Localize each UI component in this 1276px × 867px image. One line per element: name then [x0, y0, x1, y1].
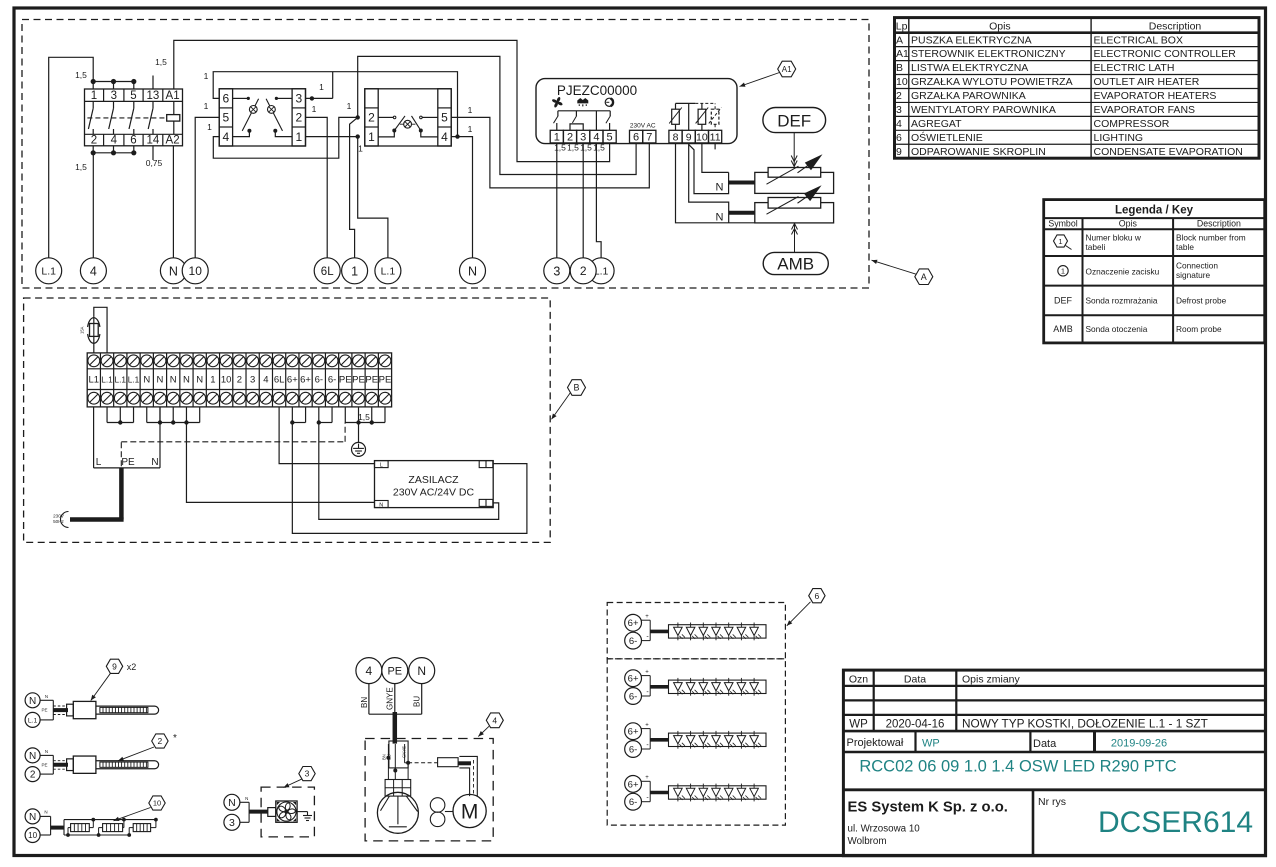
- svg-text:PE: PE: [41, 762, 47, 767]
- hexagon label 2 with leader and asterisk: [118, 733, 177, 761]
- svg-text:1,5: 1,5: [155, 57, 167, 67]
- svg-text:0,75: 0,75: [146, 158, 163, 168]
- wire 6L to power supply L: [279, 407, 374, 464]
- svg-text:EVAPORATOR HEATERS: EVAPORATOR HEATERS: [1094, 90, 1217, 102]
- svg-text:ELECTRICAL BOX: ELECTRICAL BOX: [1094, 34, 1183, 46]
- node circle L.1 mid: [375, 258, 401, 284]
- svg-text:N: N: [45, 749, 48, 754]
- svg-text:N: N: [183, 375, 190, 386]
- svg-text:AMB: AMB: [1053, 324, 1073, 334]
- hexagon label A1 with leader: [740, 61, 796, 87]
- svg-text:PE: PE: [365, 375, 378, 386]
- svg-text:6+: 6+: [628, 779, 639, 790]
- svg-text:OŚWIETLENIE: OŚWIETLENIE: [911, 131, 983, 144]
- condensate fan unit 3: [224, 794, 312, 830]
- svg-text:N: N: [196, 375, 203, 386]
- wire label 1 left of S2-2: [347, 101, 352, 111]
- node circle 6L: [314, 258, 340, 284]
- svg-text:6: 6: [815, 591, 820, 601]
- wire N to power supply N: [186, 423, 374, 503]
- junction dot S2-1: [356, 134, 360, 138]
- wire label 0,75: [146, 158, 163, 168]
- svg-text:4: 4: [90, 264, 97, 278]
- svg-text:PE: PE: [339, 375, 352, 386]
- svg-text:3: 3: [295, 92, 302, 106]
- hexagon label 6 with leader: [787, 589, 825, 626]
- svg-text:*: *: [173, 733, 177, 744]
- wire PJEZC-1 to circle 3: [556, 143, 558, 258]
- svg-text:1,5: 1,5: [75, 70, 87, 80]
- svg-text:2: 2: [368, 111, 375, 125]
- svg-text:Block number from: Block number from: [1176, 233, 1246, 243]
- svg-text:Opis: Opis: [1119, 219, 1138, 229]
- svg-text:3: 3: [111, 90, 117, 102]
- svg-text:1: 1: [204, 101, 209, 111]
- svg-text:STEROWNIK ELEKTRONICZNY: STEROWNIK ELEKTRONICZNY: [911, 48, 1066, 60]
- PJEZC terminals 6-7: [630, 130, 656, 143]
- svg-text:+: +: [645, 775, 649, 781]
- svg-text:3: 3: [580, 131, 586, 143]
- power supply ZASILACZ: [375, 461, 494, 509]
- svg-text:1,5: 1,5: [567, 143, 579, 153]
- wire label 1 left of S1-4: [207, 122, 212, 132]
- GNYE dashed link and motor cable: [408, 756, 477, 796]
- svg-text:N: N: [379, 502, 383, 508]
- svg-text:1: 1: [91, 90, 97, 102]
- svg-text:DEF: DEF: [1054, 295, 1073, 305]
- svg-text:B: B: [573, 383, 579, 393]
- svg-text:6L: 6L: [274, 375, 285, 386]
- svg-text:6L: 6L: [321, 266, 334, 278]
- svg-text:1,5: 1,5: [358, 412, 370, 422]
- svg-text:3: 3: [229, 817, 235, 829]
- svg-text:2: 2: [580, 264, 587, 278]
- svg-text:14: 14: [147, 135, 160, 147]
- svg-text:Description: Description: [1149, 20, 1202, 32]
- compressor motor symbol: [377, 792, 418, 833]
- compressor feed wires BN GNYE BU: [360, 684, 422, 744]
- svg-text:ul. Wrzosowa 10: ul. Wrzosowa 10: [848, 824, 921, 835]
- lighting dashed boundary lower: [607, 659, 785, 825]
- svg-text:3: 3: [250, 375, 255, 386]
- svg-text:4: 4: [263, 375, 268, 386]
- wire label 1,5 PE: [358, 412, 370, 422]
- svg-text:Wolbrom: Wolbrom: [848, 836, 887, 847]
- svg-text:2020-04-16: 2020-04-16: [886, 719, 945, 731]
- wire label 1 above junction: [319, 82, 324, 92]
- outlet air heater assembly 10: [25, 809, 158, 843]
- svg-text:6: 6: [633, 131, 639, 143]
- wire power supply minus to 6-: [319, 423, 499, 520]
- svg-text:2: 2: [896, 90, 902, 102]
- svg-text:13: 13: [147, 90, 160, 102]
- svg-text:Room probe: Room probe: [1176, 324, 1222, 334]
- svg-text:signature: signature: [1176, 270, 1211, 280]
- svg-text:10: 10: [153, 799, 161, 808]
- relay contact bus: [558, 110, 610, 112]
- wire labels 1,5 under terminals: [554, 143, 605, 153]
- svg-text:6-: 6-: [328, 375, 336, 386]
- fuse F1 loop L1 to L.1: [80, 307, 108, 353]
- wire S2-2 net to PJEZC terminal 6: [358, 56, 636, 174]
- fan unit dashed boundary: [261, 787, 314, 837]
- svg-text:DEF: DEF: [777, 112, 811, 131]
- svg-text:Numer bloku w: Numer bloku w: [1086, 233, 1142, 243]
- svg-text:1: 1: [210, 375, 215, 386]
- svg-text:L.1: L.1: [28, 717, 38, 724]
- svg-text:PE: PE: [387, 666, 402, 678]
- svg-text:ODPAROWANIE SKROPLIN: ODPAROWANIE SKROPLIN: [911, 146, 1046, 158]
- svg-text:PUSZKA ELEKTRYCZNA: PUSZKA ELEKTRYCZNA: [911, 34, 1032, 46]
- contactor K1: [85, 89, 183, 147]
- hexagon label 3 with leader: [284, 767, 316, 788]
- mains cable entry box L PE N: [94, 407, 160, 468]
- light relay contact: [606, 111, 611, 131]
- svg-text:Sonda otoczenia: Sonda otoczenia: [1086, 324, 1148, 334]
- svg-text:COMPRESSOR: COMPRESSOR: [1094, 118, 1170, 130]
- svg-text:230V AC/24V DC: 230V AC/24V DC: [393, 487, 475, 499]
- svg-text:Lp: Lp: [896, 20, 908, 32]
- evaporator heater assembly 2: [25, 748, 159, 782]
- wire label 1,5 bottom left: [75, 162, 87, 172]
- wire PJEZC-3 to circle 2: [582, 143, 584, 258]
- svg-text:6-: 6-: [629, 797, 637, 808]
- svg-text:N: N: [716, 212, 724, 224]
- wire S1-4 under loop to S2-2: [213, 117, 357, 158]
- node circle 3: [544, 258, 570, 284]
- defrost icon: [578, 99, 588, 107]
- svg-text:WENTYLATORY PAROWNIKA: WENTYLATORY PAROWNIKA: [911, 104, 1056, 116]
- svg-text:6: 6: [130, 135, 136, 147]
- svg-text:A2: A2: [166, 135, 180, 147]
- node circle 4: [80, 258, 106, 284]
- svg-text:10: 10: [696, 131, 708, 143]
- junction dot S2-4: [455, 134, 459, 138]
- wire label 1 right of S2-5: [468, 105, 473, 115]
- air heater assembly 9 (x2): [25, 693, 159, 728]
- fan relay contact: [554, 111, 559, 131]
- DEF pointer arrow: [791, 133, 797, 167]
- LED strip row 3: [625, 722, 766, 757]
- block label hexagon B with leader: [552, 380, 586, 420]
- PE jumper bus under strip: [345, 407, 385, 425]
- 6+ jumper bus: [290, 407, 305, 425]
- svg-text:LISTWA ELEKTRYCZNA: LISTWA ELEKTRYCZNA: [911, 62, 1028, 74]
- svg-text:4: 4: [366, 664, 373, 678]
- svg-text:10: 10: [28, 831, 37, 840]
- svg-text:Opis zmiany: Opis zmiany: [962, 674, 1021, 686]
- svg-text:A1: A1: [166, 90, 180, 102]
- node circle L.1 left: [36, 258, 62, 284]
- condenser fan symbol: [430, 798, 445, 827]
- svg-text:L.1: L.1: [101, 375, 113, 385]
- wire label 1,5 top left: [75, 70, 87, 80]
- svg-text:Data: Data: [904, 674, 926, 686]
- svg-text:4: 4: [223, 130, 230, 144]
- svg-text:M: M: [461, 801, 479, 824]
- svg-text:5: 5: [130, 90, 136, 102]
- wire terminal 8 to AMB probe: [676, 143, 755, 223]
- svg-text:Description: Description: [1197, 219, 1241, 229]
- L.1 jumper bus under strip: [107, 407, 133, 425]
- svg-text:6+: 6+: [287, 375, 298, 386]
- svg-text:1: 1: [368, 130, 375, 144]
- svg-text:10: 10: [896, 76, 908, 88]
- svg-text:7: 7: [646, 131, 652, 143]
- svg-text:6-: 6-: [629, 636, 637, 647]
- svg-text:5: 5: [607, 131, 613, 143]
- svg-text:1: 1: [351, 264, 358, 278]
- svg-text:L.1: L.1: [41, 266, 56, 278]
- defrost relay contact: [570, 111, 583, 131]
- wire label 1,5 at A1: [155, 57, 167, 67]
- probe input symbol above terminal 11 dashed: [709, 103, 722, 130]
- lighting dashed boundary upper: [607, 603, 785, 659]
- svg-text:6+: 6+: [628, 727, 639, 738]
- svg-text:8: 8: [673, 131, 679, 143]
- probe common bus: [676, 103, 716, 130]
- svg-text:2: 2: [295, 111, 302, 125]
- svg-text:N: N: [228, 797, 236, 809]
- svg-text:B: B: [896, 62, 903, 74]
- svg-text:L: L: [96, 457, 102, 468]
- svg-text:15A: 15A: [80, 326, 85, 334]
- svg-text:N: N: [468, 264, 477, 278]
- svg-text:N: N: [29, 696, 36, 707]
- svg-text:DCSER614: DCSER614: [1098, 806, 1253, 839]
- clock icon: [605, 98, 613, 106]
- node circle N left: [160, 258, 186, 284]
- svg-text:5: 5: [441, 111, 448, 125]
- svg-text:1: 1: [312, 104, 317, 114]
- wire L.1 to contactor top bus: [49, 57, 134, 258]
- svg-text:NOWY TYP KOSTKI, DOŁOZENIE L.1: NOWY TYP KOSTKI, DOŁOZENIE L.1 - 1 SZT: [962, 717, 1208, 731]
- svg-text:+: +: [645, 722, 649, 728]
- svg-text:Projektował: Projektował: [847, 737, 904, 749]
- hexagon label 10 with leader: [114, 796, 166, 821]
- svg-text:Oznaczenie zacisku: Oznaczenie zacisku: [1086, 266, 1160, 276]
- svg-text:RCC02 06 09 1.0 1.4 OSW LED R2: RCC02 06 09 1.0 1.4 OSW LED R290 PTC: [859, 758, 1176, 776]
- wire contactor to circle 4: [92, 153, 94, 258]
- light switch S1 with indicator lamps: [219, 89, 305, 146]
- svg-text:WP: WP: [849, 719, 868, 731]
- 230V AC label: [630, 122, 656, 129]
- title block: [843, 670, 1265, 856]
- svg-text:BU: BU: [413, 696, 422, 707]
- svg-text:Legenda / Key: Legenda / Key: [1115, 205, 1194, 217]
- svg-text:1: 1: [319, 82, 324, 92]
- svg-text:1,5: 1,5: [580, 143, 592, 153]
- svg-text:6+: 6+: [628, 674, 639, 685]
- svg-text:3: 3: [553, 264, 560, 278]
- wire terminal 10 to DEF probe: [702, 143, 729, 173]
- AMB probe assembly: [755, 185, 834, 223]
- svg-text:AGREGAT: AGREGAT: [911, 118, 962, 130]
- svg-text:N: N: [143, 375, 150, 386]
- svg-text:N: N: [716, 182, 724, 194]
- svg-text:+: +: [645, 669, 649, 675]
- svg-text:1,5: 1,5: [554, 143, 566, 153]
- probe input symbol above terminal 10: [696, 103, 709, 130]
- svg-text:4: 4: [593, 131, 599, 143]
- contactor bottom bus: [93, 146, 134, 153]
- node circle L.1 right: [588, 258, 614, 284]
- svg-text:1: 1: [204, 71, 209, 81]
- wire label 1 right of S2-4: [468, 124, 473, 134]
- electronic controller U1 PJEZC00000 body: [536, 79, 737, 144]
- svg-text:Opis: Opis: [989, 20, 1011, 32]
- terminal strip X1: [87, 353, 391, 407]
- mains supply cable 230V 50Hz: [53, 468, 123, 528]
- wire S2-1 to circle L.1: [358, 137, 388, 258]
- svg-text:N: N: [157, 375, 164, 386]
- svg-text:ES System K Sp. z o.o.: ES System K Sp. z o.o.: [848, 800, 1008, 816]
- svg-text:Sonda rozmrażania: Sonda rozmrażania: [1086, 295, 1158, 305]
- probe input symbol above terminal 8: [669, 103, 682, 130]
- svg-text:L.1: L.1: [381, 266, 396, 278]
- svg-text:4: 4: [441, 130, 448, 144]
- svg-text:A: A: [896, 34, 903, 46]
- svg-text:1,5: 1,5: [593, 143, 605, 153]
- wire S1-2 to circle 6L: [306, 117, 328, 258]
- svg-text:3: 3: [896, 104, 902, 116]
- svg-text:N: N: [44, 810, 47, 815]
- svg-text:6: 6: [896, 132, 902, 144]
- svg-text:Nr rys: Nr rys: [1038, 796, 1066, 808]
- component list table: [895, 18, 1260, 159]
- svg-text:tabeli: tabeli: [1086, 242, 1106, 252]
- electric lath box B boundary: [24, 298, 551, 542]
- compressor terminal block: [385, 780, 411, 797]
- junction dots contactor top bus: [91, 79, 137, 84]
- node circle N compressor: [409, 658, 435, 684]
- wire S2-2 to circle 1: [350, 117, 358, 258]
- svg-text:11: 11: [710, 131, 721, 143]
- svg-text:1: 1: [207, 122, 212, 132]
- wire S2-5 to PJEZC terminal 7: [451, 117, 649, 187]
- svg-text:4: 4: [896, 118, 902, 130]
- svg-text:1: 1: [295, 130, 302, 144]
- svg-text:L: L: [380, 462, 383, 468]
- svg-text:2: 2: [158, 736, 163, 746]
- svg-text:N: N: [417, 664, 426, 678]
- svg-text:2: 2: [91, 135, 97, 147]
- svg-text:table: table: [1176, 242, 1194, 252]
- svg-text:2: 2: [567, 131, 573, 143]
- svg-text:GNYE: GNYE: [386, 687, 395, 710]
- svg-text:A1: A1: [782, 65, 792, 74]
- wire S2-4 to circle N: [451, 137, 472, 258]
- 6- jumper bus: [317, 407, 332, 425]
- svg-text:N: N: [45, 694, 48, 699]
- hexagon label 4 with leader: [478, 713, 503, 737]
- svg-text:9: 9: [686, 131, 692, 143]
- terminal 14 stub: [152, 146, 154, 160]
- svg-text:9: 9: [896, 146, 902, 158]
- AMB probe N label and cable: [716, 212, 755, 224]
- svg-text:4: 4: [111, 135, 118, 147]
- svg-text:ELECTRONIC CONTROLLER: ELECTRONIC CONTROLLER: [1094, 48, 1237, 60]
- wire A2 to circle N: [172, 146, 174, 258]
- svg-text:L.1: L.1: [115, 375, 127, 385]
- compressor cable breakout: [382, 741, 411, 780]
- svg-text:Ozn: Ozn: [849, 674, 868, 686]
- svg-text:3: 3: [305, 769, 310, 779]
- svg-text:L.1: L.1: [128, 375, 140, 385]
- svg-text:PE: PE: [352, 375, 365, 386]
- wire S1-5 to circle 10: [195, 117, 219, 258]
- svg-text:Symbol: Symbol: [1048, 219, 1077, 229]
- svg-text:1: 1: [347, 101, 352, 111]
- svg-text:230V: 230V: [53, 514, 65, 519]
- svg-text:EVAPORATOR FANS: EVAPORATOR FANS: [1094, 104, 1196, 116]
- svg-text:GNYE: GNYE: [401, 746, 406, 758]
- node circle 2: [570, 258, 596, 284]
- wire label 1 above S1: [204, 71, 209, 81]
- DEF probe assembly: [755, 154, 834, 193]
- wire A1 coil to PJEZC terminal 5: [174, 40, 610, 161]
- node circle PE compressor: [382, 658, 408, 684]
- svg-text:1: 1: [468, 124, 473, 134]
- svg-text:WP: WP: [922, 738, 940, 750]
- svg-text:1: 1: [358, 144, 363, 154]
- node circle N right: [460, 258, 486, 284]
- svg-text:L1: L1: [89, 375, 100, 386]
- svg-text:N: N: [29, 751, 36, 762]
- svg-text:1: 1: [554, 131, 560, 143]
- svg-text:2019-09-26: 2019-09-26: [1111, 738, 1167, 750]
- legend key table: [1044, 200, 1265, 343]
- svg-text:2: 2: [237, 375, 242, 386]
- junction dot S2-2: [356, 115, 360, 119]
- common terminal 4 riser: [595, 111, 597, 131]
- svg-text:BN: BN: [360, 697, 369, 708]
- svg-text:10: 10: [221, 375, 232, 386]
- svg-text:4: 4: [492, 715, 497, 725]
- earth ground symbol: [352, 423, 366, 457]
- svg-text:50Hz: 50Hz: [53, 519, 64, 524]
- AMB label capsule: [763, 252, 828, 274]
- hexagon label 9 with leader and x2: [91, 659, 136, 700]
- svg-text:ZASILACZ: ZASILACZ: [408, 474, 459, 486]
- svg-text:CONDENSATE EVAPORATION: CONDENSATE EVAPORATION: [1094, 146, 1243, 158]
- svg-text:6-: 6-: [315, 375, 323, 386]
- svg-text:N: N: [245, 796, 248, 801]
- terminal 11 stub: [714, 143, 716, 150]
- svg-text:Data: Data: [1033, 738, 1057, 750]
- wire S1-3 junction to top loop: [306, 72, 333, 101]
- wire label 1 left of S1-5: [204, 101, 209, 111]
- svg-text:1: 1: [468, 105, 473, 115]
- node circle 1: [342, 258, 368, 284]
- AMB pointer arrow: [792, 224, 798, 253]
- wire label 1 below S2-1: [358, 144, 363, 154]
- svg-text:N: N: [170, 375, 177, 386]
- svg-text:1,5: 1,5: [75, 162, 87, 172]
- wire S1-6 top loop to S2-4: [213, 72, 457, 137]
- svg-text:6+: 6+: [300, 375, 311, 386]
- wire PJEZC-4 to circle L.1: [596, 143, 601, 258]
- LED strip row 4: [625, 775, 766, 810]
- svg-text:PE: PE: [379, 375, 392, 386]
- svg-text:GRZAŁKA WYLOTU POWIETRZA: GRZAŁKA WYLOTU POWIETRZA: [911, 76, 1073, 88]
- block label hexagon A: [872, 260, 933, 285]
- svg-text:A: A: [921, 272, 927, 282]
- node circle 4 compressor: [356, 658, 382, 684]
- svg-text:PE: PE: [121, 457, 135, 468]
- svg-text:230V AC: 230V AC: [630, 122, 656, 129]
- wire terminal 9 to AMB probe N: [689, 143, 729, 223]
